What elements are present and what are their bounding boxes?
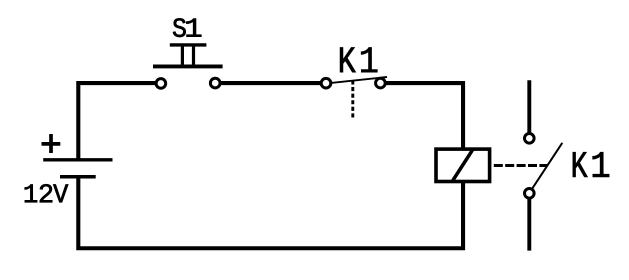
relay contact K1 terminal circle left bbox=[321, 78, 331, 88]
relay coil K1 body bbox=[436, 149, 490, 181]
relay output contact K1 label bbox=[573, 152, 609, 177]
relay output contact K1 bottom terminal circle bbox=[525, 189, 535, 199]
wire top middle (S1 to K1 contact) bbox=[220, 81, 322, 85]
relay contact K1 actuation dashed link bbox=[351, 80, 354, 117]
relay coil K1 diagonal bbox=[453, 150, 473, 181]
relay contact K1 lever bbox=[331, 77, 387, 83]
pushbutton S1 bridge bar bbox=[153, 65, 223, 69]
battery B1 short plate (-) bbox=[60, 175, 96, 179]
pushbutton S1 stem left bbox=[181, 47, 184, 65]
relay contact K1 (NO) label bbox=[340, 48, 377, 73]
relay output contact K1 bottom wire bbox=[527, 199, 531, 251]
battery B1 plus sign bbox=[42, 134, 61, 153]
wire bottom U (relay coil to battery -) bbox=[78, 177, 463, 248]
relay coil K1 actuation dashed link bbox=[494, 164, 548, 167]
battery B1 long plate (+) bbox=[43, 158, 112, 161]
relay output contact K1 lever bbox=[533, 143, 563, 188]
relay contact K1 terminal circle right bbox=[376, 78, 386, 88]
wire top-left L (battery + to S1) bbox=[78, 83, 156, 160]
wire top-right L (K1 contact to relay coil) bbox=[385, 83, 463, 149]
pushbutton S1 terminal circle right bbox=[210, 78, 220, 88]
pushbutton S1 cap bar bbox=[170, 43, 207, 46]
battery value label 12V bbox=[25, 184, 68, 202]
relay output contact K1 top wire bbox=[527, 80, 531, 133]
pushbutton S1 terminal circle left bbox=[156, 79, 166, 89]
pushbutton S1 label bbox=[173, 18, 201, 37]
pushbutton S1 stem right bbox=[192, 47, 195, 65]
relay output contact K1 top terminal circle bbox=[525, 134, 535, 144]
